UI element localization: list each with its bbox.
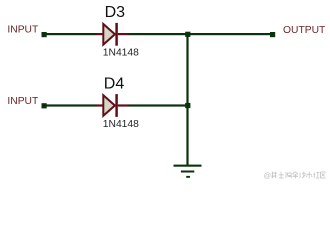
D3 cathode bar	[115, 23, 118, 46]
svg-text:INPUT: INPUT	[7, 96, 39, 107]
output terminal pin	[270, 32, 275, 37]
svg-text:OUTPUT: OUTPUT	[283, 25, 326, 36]
svg-text:@: @	[264, 171, 272, 180]
svg-text:1N4148: 1N4148	[103, 47, 139, 58]
D3 anode pin	[96, 33, 103, 35]
ground bar 3	[186, 176, 190, 178]
input terminal pin (top)	[42, 32, 47, 37]
D4 cathode bar	[115, 94, 118, 117]
svg-text:D3: D3	[105, 4, 126, 21]
svg-text:INPUT: INPUT	[7, 25, 39, 36]
D4 anode pin	[96, 104, 103, 106]
svg-text:1N4148: 1N4148	[103, 119, 139, 130]
wire input1 to D3 anode	[47, 33, 97, 35]
wire vertical junction to ground	[186, 34, 188, 166]
diode D4	[96, 94, 128, 117]
wire D3 cathode to output	[129, 33, 271, 35]
D3 triangle	[103, 24, 115, 45]
ground bar 2	[181, 171, 194, 173]
D4 triangle	[103, 95, 115, 116]
D3 cathode pin	[118, 33, 129, 35]
junction node (bottom)	[185, 103, 190, 108]
wire input2 to D4 anode	[47, 104, 97, 106]
watermark glyph blocks	[271, 172, 325, 179]
input terminal pin (bottom)	[42, 103, 47, 108]
diode D3	[96, 23, 128, 46]
svg-text:D4: D4	[104, 76, 125, 93]
junction node (top)	[185, 32, 190, 37]
ground bar 1	[174, 165, 202, 167]
wire D4 cathode to junction	[129, 104, 188, 106]
ground symbol	[174, 165, 202, 178]
D4 cathode pin	[118, 104, 129, 106]
